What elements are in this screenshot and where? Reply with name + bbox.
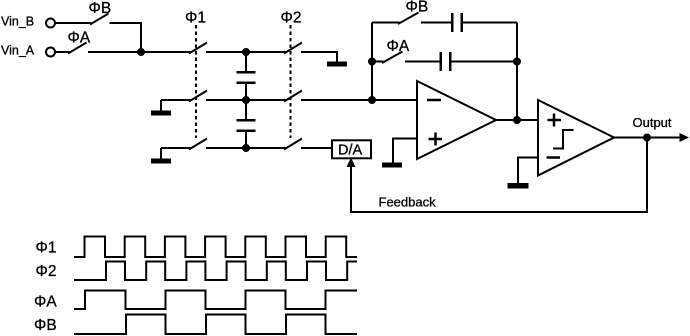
- ground comparator minus: [508, 183, 529, 189]
- svg-text:Feedback: Feedback: [379, 195, 437, 210]
- capacitor C4 feedback A: [440, 52, 452, 71]
- output arrow: [680, 133, 690, 142]
- wire: [161, 147, 191, 149]
- wire: [463, 22, 517, 24]
- op-amp U1: [417, 81, 496, 159]
- wire: [246, 147, 286, 149]
- wire: [301, 52, 337, 62]
- node op-amp output: [514, 117, 520, 123]
- wire: [161, 99, 191, 101]
- svg-text:ΦA: ΦA: [34, 294, 57, 311]
- ground row2 left: [151, 100, 171, 116]
- switch PHI-1 row1: [189, 43, 207, 54]
- node row2: [243, 97, 249, 103]
- waveform PHI-A: [74, 291, 357, 310]
- svg-text:Output: Output: [633, 115, 672, 130]
- svg-text:ΦA: ΦA: [387, 38, 410, 55]
- switch PHI-1 row2: [189, 91, 207, 102]
- wire: [56, 22, 92, 24]
- wire feedback net: [351, 138, 647, 213]
- wire: [246, 99, 286, 101]
- svg-text:Vin_B: Vin_B: [1, 15, 34, 29]
- svg-text:ΦA: ΦA: [68, 30, 91, 47]
- capacitor C2: [237, 100, 256, 148]
- svg-text:Φ2: Φ2: [36, 263, 57, 280]
- input terminal Vin_B: [1, 15, 55, 29]
- svg-text:D/A: D/A: [338, 142, 363, 158]
- wire: [496, 119, 538, 121]
- ground row3 left: [151, 148, 171, 164]
- arrowhead into D/A: [347, 158, 356, 168]
- switch PHI-2 row2: [284, 91, 302, 102]
- node junction input: [138, 49, 144, 55]
- switch PHI-2 row1: [284, 43, 302, 54]
- wire: [301, 147, 331, 149]
- wire: [372, 22, 400, 24]
- node feedback left lower: [369, 97, 375, 103]
- clock line PHI-1 dashed: [195, 25, 197, 138]
- capacitor C3 feedback B: [451, 13, 463, 32]
- wire: [206, 99, 246, 101]
- waveform PHI-1: [74, 237, 357, 258]
- wire: [421, 22, 452, 24]
- switch PHI-B input: [89, 0, 112, 25]
- comparator U2: [538, 100, 614, 176]
- ground row1 right: [327, 62, 347, 67]
- svg-text:ΦB: ΦB: [89, 0, 112, 17]
- node feedback left upper: [369, 59, 375, 65]
- wire: [452, 61, 518, 63]
- svg-text:Φ1: Φ1: [185, 9, 206, 26]
- node row1: [243, 49, 249, 55]
- feedback branch right vertical wire: [516, 23, 518, 121]
- wire: [405, 61, 440, 63]
- node feedback right upper: [514, 59, 520, 65]
- svg-text:Φ1: Φ1: [36, 240, 57, 257]
- switch PHI-1 row3: [189, 139, 207, 150]
- waveform PHI-2: [74, 262, 357, 281]
- wire: [246, 51, 286, 53]
- D/A converter: [332, 140, 371, 158]
- clock line PHI-2 dashed: [290, 25, 292, 138]
- wire: [56, 51, 70, 53]
- node row3: [243, 145, 249, 151]
- feedback branch left vertical wire: [371, 23, 373, 101]
- wire: [206, 147, 246, 149]
- switch PHI-B feedback: [398, 0, 428, 24]
- svg-text:ΦB: ΦB: [34, 317, 57, 334]
- switch PHI-2 row3: [284, 139, 302, 150]
- ground op-amp plus: [382, 163, 402, 168]
- wire: [110, 23, 142, 52]
- input terminal Vin_A: [1, 44, 55, 58]
- svg-text:ΦB: ΦB: [406, 0, 429, 16]
- wire: [518, 158, 538, 184]
- waveform PHI-B: [74, 315, 357, 335]
- wire: [372, 61, 384, 63]
- wire: [614, 137, 681, 139]
- wire: [88, 51, 191, 53]
- wire: [393, 139, 417, 164]
- svg-text:Vin_A: Vin_A: [1, 44, 35, 58]
- wire: [301, 99, 417, 101]
- switch PHI-A feedback: [382, 38, 410, 63]
- node output: [644, 135, 650, 141]
- wire: [206, 51, 246, 53]
- capacitor C1: [237, 52, 256, 100]
- switch PHI-A input: [68, 30, 91, 54]
- svg-text:Φ2: Φ2: [281, 9, 302, 26]
